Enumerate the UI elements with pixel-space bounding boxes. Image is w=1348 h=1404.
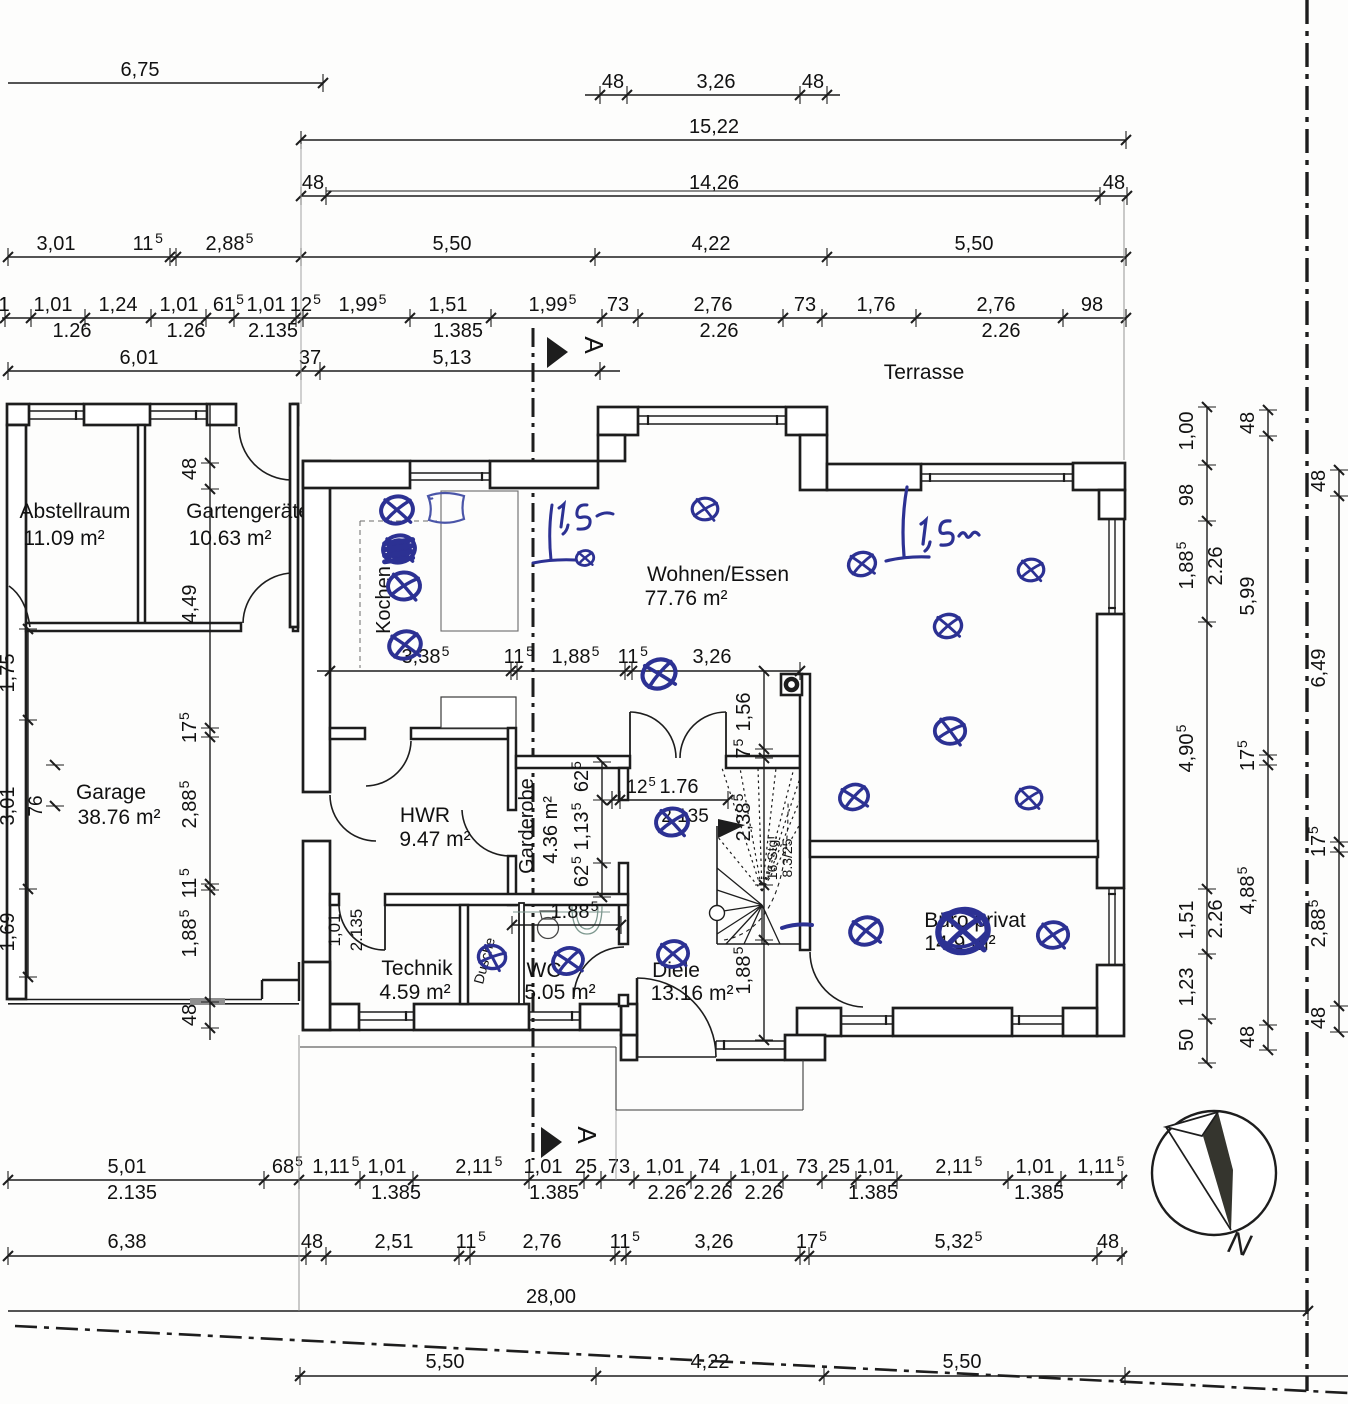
- svg-text:9.47 m²: 9.47 m²: [399, 828, 470, 851]
- svg-text:13.16 m²: 13.16 m²: [651, 982, 734, 1005]
- ceiling light scribble 9: [932, 612, 963, 640]
- wall Buero south w-d to corner: [1012, 1007, 1063, 1009]
- ceiling light scribble 8: [1015, 555, 1047, 584]
- wall main north left: [303, 461, 410, 488]
- svg-text:2,11: 2,11: [935, 1156, 972, 1178]
- dim row 48|3,26|48 (bay): [585, 94, 840, 96]
- ceiling light scribble 15: [655, 938, 690, 969]
- svg-text:5: 5: [569, 291, 577, 307]
- ceiling light scribble 20: [1034, 917, 1073, 952]
- porch slab: [615, 1047, 617, 1110]
- wall hall south (HWR/Garderobe bottom): [330, 894, 339, 905]
- svg-text:98: 98: [1081, 294, 1103, 316]
- wall left-block top corner piece: [293, 404, 298, 425]
- svg-text:11.09 m²: 11.09 m²: [23, 527, 104, 550]
- svg-text:17: 17: [179, 721, 201, 743]
- svg-text:5: 5: [730, 946, 746, 954]
- ceiling light scribble 13: [637, 654, 681, 695]
- wall Garderobe east upper: [619, 768, 628, 800]
- svg-text:50: 50: [1176, 1029, 1198, 1051]
- svg-text:3,26: 3,26: [695, 1231, 734, 1253]
- wall Diele south pier: [785, 1035, 825, 1060]
- svg-text:2,88: 2,88: [179, 790, 201, 829]
- handwritten 1,5m measure right: [886, 487, 929, 561]
- svg-text:2.26: 2.26: [745, 1182, 784, 1204]
- svg-text:14,26: 14,26: [689, 172, 739, 194]
- svg-text:1,11: 1,11: [1077, 1156, 1114, 1178]
- svg-text:2,51: 2,51: [375, 1231, 414, 1253]
- svg-text:1,56: 1,56: [733, 693, 755, 732]
- wall east middle: [1097, 614, 1124, 888]
- wall stairhall west (Wohnen side): [800, 674, 810, 950]
- svg-text:1,24: 1,24: [99, 294, 138, 316]
- wall Buero south left piece: [797, 1008, 841, 1036]
- svg-text:1,88: 1,88: [179, 919, 201, 958]
- svg-text:2,88: 2,88: [206, 233, 245, 255]
- ceiling light scribble 6: [688, 493, 722, 524]
- svg-text:17: 17: [1237, 749, 1259, 771]
- svg-text:1,01: 1,01: [160, 294, 199, 316]
- door arc Technik: [339, 906, 385, 950]
- door arc Buero: [810, 952, 863, 1007]
- svg-text:1,88: 1,88: [733, 956, 755, 995]
- svg-text:48: 48: [1237, 412, 1259, 434]
- dim row small top: [2, 317, 1126, 319]
- svg-text:1.385: 1.385: [433, 320, 483, 342]
- svg-text:1,99: 1,99: [529, 294, 568, 316]
- svg-text:5: 5: [155, 230, 163, 246]
- svg-text:3,26: 3,26: [693, 646, 732, 668]
- svg-text:1.26: 1.26: [167, 320, 206, 342]
- svg-text:1,00: 1,00: [1176, 412, 1198, 451]
- svg-text:11: 11: [456, 1231, 477, 1253]
- window Buero east: [1108, 888, 1110, 965]
- svg-text:5: 5: [975, 1153, 983, 1169]
- svg-text:5.05 m²: 5.05 m²: [524, 981, 595, 1004]
- ceiling light scribble 16: [549, 943, 588, 978]
- svg-text:5: 5: [442, 643, 450, 659]
- svg-text:5,32: 5,32: [935, 1231, 974, 1253]
- ceiling light scribble 1: [379, 493, 416, 526]
- svg-text:2.135: 2.135: [248, 320, 298, 342]
- svg-text:5,13: 5,13: [433, 347, 472, 369]
- svg-text:48: 48: [179, 1004, 201, 1026]
- svg-text:11: 11: [504, 646, 525, 668]
- svg-text:5: 5: [246, 230, 254, 246]
- wall left-block west: [7, 425, 26, 999]
- svg-text:5: 5: [313, 291, 321, 307]
- svg-text:62: 62: [571, 770, 593, 792]
- svg-text:5: 5: [478, 1228, 486, 1244]
- roof overhang line left: [300, 1046, 616, 1048]
- svg-text:11: 11: [179, 878, 201, 899]
- svg-text:11: 11: [610, 1231, 631, 1253]
- projection line x299 bottom: [298, 1035, 300, 1311]
- svg-text:5: 5: [1234, 740, 1250, 748]
- door arc WC: [574, 947, 624, 997]
- svg-text:2.26: 2.26: [1205, 547, 1227, 586]
- svg-text:A: A: [579, 336, 609, 354]
- wall main north left2: [490, 461, 598, 488]
- kitchen counter dashed: [359, 521, 361, 668]
- svg-text:10.63 m²: 10.63 m²: [189, 527, 272, 550]
- dim row bottom 4: [295, 1375, 1348, 1377]
- svg-text:62: 62: [571, 865, 593, 887]
- chimney block: [441, 697, 516, 728]
- wall divider Abstellraum|Gartengeraete: [138, 425, 145, 627]
- svg-text:Terrasse: Terrasse: [884, 361, 965, 384]
- wall HWR top left part: [330, 728, 365, 739]
- wall SE corner: [1097, 965, 1124, 1036]
- double door arc left: [630, 712, 676, 758]
- svg-text:1,01: 1,01: [857, 1156, 896, 1178]
- svg-text:38.76 m²: 38.76 m²: [78, 806, 161, 829]
- svg-text:1.385: 1.385: [1014, 1182, 1064, 1204]
- svg-text:48: 48: [302, 172, 324, 194]
- svg-text:2.26: 2.26: [700, 320, 739, 342]
- svg-text:7: 7: [733, 747, 755, 758]
- door arc garage-HWR: [330, 795, 376, 841]
- garage outline step: [261, 980, 263, 999]
- svg-text:1,11: 1,11: [312, 1156, 349, 1178]
- svg-text:5: 5: [730, 738, 746, 746]
- dim row 6,75: [8, 82, 323, 84]
- door arc Gartengeraete north: [239, 427, 291, 480]
- dim col right inner: [1206, 407, 1208, 1063]
- ceiling light scribble 19: [934, 905, 991, 956]
- svg-text:48: 48: [802, 71, 824, 93]
- handwritten square (kitchen): [428, 493, 464, 523]
- wall Technik south left piece: [330, 1004, 359, 1030]
- wall Garderobe east lower: [619, 995, 628, 1006]
- svg-text:1,01: 1,01: [325, 913, 344, 946]
- svg-text:77.76 m²: 77.76 m²: [645, 587, 728, 610]
- svg-text:2,76: 2,76: [694, 294, 733, 316]
- svg-text:2,11: 2,11: [455, 1156, 492, 1178]
- svg-text:1,88: 1,88: [1176, 551, 1198, 590]
- ceiling light scribble 3: [383, 567, 424, 605]
- svg-text:2,38: 2,38: [733, 803, 755, 842]
- svg-text:2.26: 2.26: [648, 1182, 687, 1204]
- svg-text:5: 5: [1173, 724, 1189, 732]
- svg-text:11: 11: [618, 646, 639, 668]
- window WC south: [529, 1011, 580, 1013]
- handwritten text 1,5m left: [559, 504, 613, 534]
- svg-text:Abstellraum: Abstellraum: [20, 500, 131, 523]
- svg-text:Garderobe: Garderobe: [516, 778, 538, 874]
- ceiling light scribble 2: [381, 532, 418, 565]
- svg-text:1,13: 1,13: [571, 812, 593, 851]
- svg-text:73: 73: [796, 1156, 818, 1178]
- wall Garderobe west lower: [508, 856, 516, 905]
- svg-text:1.26: 1.26: [53, 320, 92, 342]
- svg-text:5: 5: [819, 1228, 827, 1244]
- wall bay right pier: [786, 407, 827, 435]
- wall Wohnen|Buero: [810, 841, 1098, 857]
- window Buero south west: [841, 1015, 893, 1017]
- wall Garderobe west upper: [508, 728, 516, 810]
- svg-text:61: 61: [213, 294, 235, 316]
- svg-text:5: 5: [526, 643, 534, 659]
- wall Essen|Diele right part: [726, 756, 800, 768]
- window Wohnen north: [921, 473, 1073, 475]
- svg-text:6,75: 6,75: [121, 59, 160, 81]
- door arc Gartengeraete south: [243, 573, 293, 623]
- ceiling light scribble 5: [575, 549, 595, 567]
- svg-text:HWR: HWR: [400, 804, 450, 827]
- svg-text:5: 5: [236, 291, 244, 307]
- dim col 48/4,49/...: [209, 404, 211, 1040]
- svg-text:4,88: 4,88: [1237, 876, 1259, 915]
- terrace edge line: [326, 190, 1100, 192]
- svg-text:1,69: 1,69: [0, 913, 19, 952]
- window Diele sidelight: [716, 1040, 785, 1042]
- svg-text:6,01: 6,01: [120, 347, 159, 369]
- svg-text:48: 48: [1308, 1007, 1330, 1029]
- stairs (winder): [710, 768, 801, 944]
- wall left-block top west pier: [7, 404, 29, 425]
- projection line porch: [615, 1110, 617, 1180]
- svg-text:Garage: Garage: [76, 781, 146, 804]
- svg-text:6,49: 6,49: [1308, 649, 1330, 688]
- svg-text:25: 25: [575, 1156, 597, 1178]
- svg-text:1.385: 1.385: [371, 1182, 421, 1204]
- door arc Abstellraum: [9, 586, 30, 627]
- wall NE corner: [1073, 463, 1125, 490]
- svg-text:5: 5: [495, 1153, 503, 1169]
- svg-text:4.59 m²: 4.59 m²: [379, 981, 450, 1004]
- svg-text:5: 5: [975, 1228, 983, 1244]
- svg-text:2.26: 2.26: [1205, 900, 1227, 939]
- svg-text:1,75: 1,75: [0, 654, 19, 693]
- svg-text:5: 5: [1117, 1153, 1125, 1169]
- svg-text:48: 48: [1237, 1026, 1259, 1048]
- svg-text:5: 5: [379, 291, 387, 307]
- wall left-block top mid: [84, 404, 150, 425]
- dim row bottom 2: [8, 1255, 1125, 1257]
- entrance threshold: [637, 1056, 716, 1058]
- wall bay left pier: [598, 407, 638, 435]
- double door leaf left: [629, 712, 631, 758]
- svg-text:48: 48: [602, 71, 624, 93]
- kitchen counter: [441, 491, 518, 631]
- window Kochen north: [410, 472, 490, 474]
- svg-text:8.3/25: 8.3/25: [779, 838, 795, 877]
- wall SE corner2: [1063, 1008, 1097, 1036]
- wall left-block east: [290, 404, 298, 627]
- svg-text:1,76: 1,76: [857, 294, 896, 316]
- dim col stair 1,56: [763, 671, 765, 1040]
- wall garage top (left part): [26, 623, 241, 631]
- svg-text:1,01: 1,01: [740, 1156, 779, 1178]
- svg-text:5: 5: [568, 856, 584, 864]
- dim row kitchen 3,38..: [317, 670, 800, 672]
- wall main west (upper): [303, 461, 330, 792]
- wall hall south main: [385, 894, 628, 905]
- svg-text:28,00: 28,00: [526, 1286, 576, 1308]
- svg-text:5: 5: [568, 761, 584, 769]
- svg-text:17: 17: [796, 1231, 818, 1253]
- smoke detector: [781, 674, 802, 695]
- ceiling light scribble 12: [1013, 784, 1045, 813]
- svg-text:17: 17: [1308, 835, 1330, 857]
- ceiling light scribble 7: [845, 549, 879, 580]
- property line east (dash-dot): [1305, 0, 1308, 1391]
- svg-text:1,99: 1,99: [339, 294, 378, 316]
- north arrow: [1152, 1111, 1276, 1235]
- ceiling light scribble 14: [652, 804, 692, 841]
- svg-text:Wohnen/Essen: Wohnen/Essen: [647, 563, 789, 586]
- section line A-A (dash-dot): [532, 328, 535, 1160]
- window Technik south: [359, 1011, 414, 1013]
- svg-text:5: 5: [591, 898, 599, 914]
- svg-text:5: 5: [176, 780, 192, 788]
- svg-text:1,51: 1,51: [429, 294, 468, 316]
- svg-text:1,01: 1,01: [646, 1156, 685, 1178]
- ceiling light scribble 10: [930, 712, 971, 750]
- handwritten dash (Buero): [782, 924, 812, 928]
- svg-text:1,01: 1,01: [524, 1156, 563, 1178]
- svg-text:5,50: 5,50: [943, 1351, 982, 1373]
- garage door gray segment: [190, 998, 225, 1005]
- projection line house left: [300, 144, 302, 404]
- svg-text:5: 5: [568, 802, 584, 810]
- svg-text:1,01: 1,01: [247, 294, 286, 316]
- window Wohnen east: [1108, 519, 1110, 614]
- svg-text:11: 11: [133, 233, 154, 255]
- dim row 14,26: [301, 195, 1127, 197]
- svg-text:5: 5: [1234, 866, 1250, 874]
- svg-text:1,01: 1,01: [1016, 1156, 1055, 1178]
- property line south (dash-dot): [15, 1326, 1348, 1393]
- svg-text:1,01: 1,01: [368, 1156, 407, 1178]
- svg-text:A: A: [572, 1126, 602, 1144]
- svg-text:5,01: 5,01: [108, 1156, 147, 1178]
- svg-text:6,38: 6,38: [108, 1231, 147, 1253]
- window Gartengeraete north: [150, 410, 207, 412]
- svg-text:1.385: 1.385: [848, 1182, 898, 1204]
- wall entrance left jamb + step: [621, 1035, 637, 1060]
- svg-text:5: 5: [592, 643, 600, 659]
- svg-text:2.26: 2.26: [982, 320, 1021, 342]
- svg-text:73: 73: [608, 1156, 630, 1178]
- svg-text:1.76: 1.76: [660, 776, 699, 798]
- svg-text:15,22: 15,22: [689, 116, 739, 138]
- dim col garderobe 62/113/62: [601, 762, 603, 897]
- svg-text:48: 48: [1097, 1231, 1119, 1253]
- wall HWR top right part: [411, 728, 508, 739]
- door entrance arc: [637, 978, 716, 1057]
- wall Technik south right piece: [580, 1004, 621, 1030]
- svg-text:76: 76: [26, 795, 47, 816]
- svg-text:5: 5: [176, 868, 192, 876]
- wall main west (lower): [303, 841, 330, 1030]
- ceiling light scribble 18: [846, 913, 885, 949]
- double door arc right: [680, 712, 726, 758]
- garage door line: [8, 999, 262, 1001]
- dim row 15,22: [301, 139, 1126, 141]
- svg-text:1.385: 1.385: [529, 1182, 579, 1204]
- double door leaf right: [725, 712, 727, 758]
- svg-text:1.88: 1.88: [551, 901, 590, 923]
- dim WC 1.88: [512, 924, 621, 926]
- dim col left 1,75/3,01/1,69: [27, 629, 29, 977]
- svg-text:1,88: 1,88: [552, 646, 591, 668]
- door arc HWR-Garderobe: [462, 810, 510, 856]
- handwritten text 1,5m right: [921, 520, 979, 551]
- svg-text:1,23: 1,23: [1176, 968, 1198, 1007]
- svg-text:3,01: 3,01: [0, 787, 19, 826]
- svg-text:48: 48: [1103, 172, 1125, 194]
- svg-text:Gartengeräte: Gartengeräte: [186, 500, 310, 523]
- svg-text:5,50: 5,50: [955, 233, 994, 255]
- svg-text:1,01: 1,01: [34, 294, 73, 316]
- svg-text:68: 68: [272, 1156, 294, 1178]
- svg-text:2,76: 2,76: [523, 1231, 562, 1253]
- wall Essen|Diele left part: [516, 756, 630, 768]
- wall garage top (right part): [293, 623, 298, 631]
- svg-text:1,51: 1,51: [1176, 901, 1198, 940]
- svg-text:4.36 m²: 4.36 m²: [540, 796, 562, 864]
- wall Technik south mid pier: [414, 1004, 529, 1030]
- svg-text:5,99: 5,99: [1237, 577, 1259, 616]
- svg-text:2,88: 2,88: [1308, 909, 1330, 948]
- svg-text:Technik: Technik: [381, 957, 453, 980]
- dim col far right: [1338, 470, 1340, 1032]
- svg-text:98: 98: [1176, 484, 1198, 506]
- dim row 28,00: [8, 1310, 1308, 1312]
- svg-text:16 Stg!: 16 Stg!: [764, 836, 780, 880]
- svg-text:5: 5: [176, 712, 192, 720]
- svg-text:5: 5: [1173, 541, 1189, 549]
- section marker A top: [547, 337, 568, 368]
- svg-text:48: 48: [179, 458, 201, 480]
- svg-text:2.135: 2.135: [347, 909, 366, 952]
- dim row bottom 1: [8, 1179, 1125, 1181]
- handwritten 1,5m measure left: [533, 505, 575, 563]
- svg-text:3,26: 3,26: [697, 71, 736, 93]
- door entrance leaf: [636, 978, 639, 1057]
- ceiling light scribble 11: [835, 780, 872, 814]
- dim row 6,01|37|5,13: [8, 370, 620, 372]
- svg-text:2.26: 2.26: [694, 1182, 733, 1204]
- svg-text:48: 48: [1308, 470, 1330, 492]
- svg-text:5: 5: [649, 774, 656, 789]
- svg-text:5: 5: [632, 1228, 640, 1244]
- svg-text:4,22: 4,22: [692, 233, 731, 255]
- svg-text:5,50: 5,50: [426, 1351, 465, 1373]
- svg-text:3,01: 3,01: [37, 233, 76, 255]
- wall Buero south pier: [893, 1008, 1012, 1036]
- section marker A bottom: [541, 1127, 562, 1158]
- svg-text:5,50: 5,50: [433, 233, 472, 255]
- svg-text:5: 5: [640, 643, 648, 659]
- svg-text:73: 73: [607, 294, 629, 316]
- wall Dusche|WC: [519, 903, 524, 1004]
- svg-text:4,49: 4,49: [179, 585, 201, 624]
- wall SW corner block: [303, 962, 330, 1030]
- ceiling light scribble 17: [472, 938, 511, 975]
- wall main north right of bay: [827, 464, 921, 490]
- svg-text:5: 5: [176, 909, 192, 917]
- ceiling light scribble 4: [385, 627, 425, 664]
- svg-text:48: 48: [301, 1231, 323, 1253]
- door leaf Technik: [384, 905, 386, 950]
- WC fixtures: [513, 906, 610, 939]
- svg-text:1: 1: [0, 294, 10, 316]
- window Abstellraum north: [29, 410, 84, 412]
- dim col right outer: [1267, 410, 1269, 1050]
